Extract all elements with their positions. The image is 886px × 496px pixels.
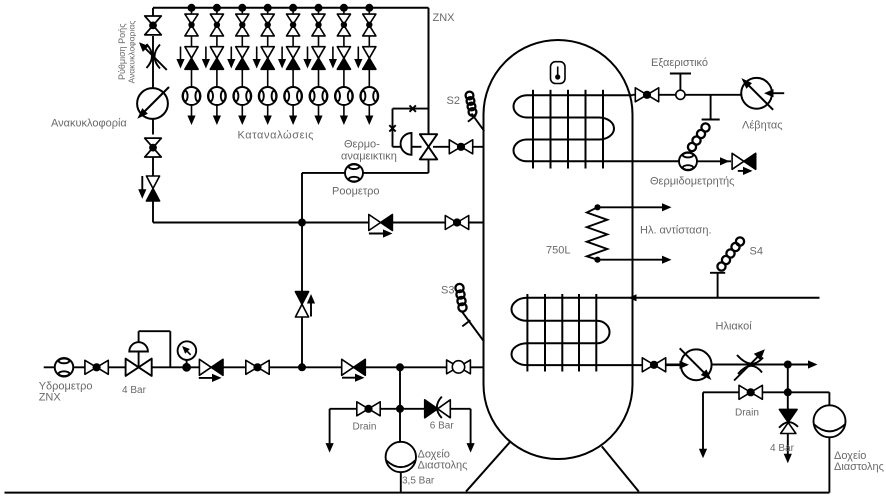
svg-text:Καταναλώσεις: Καταναλώσεις (238, 130, 315, 142)
svg-text:Ροομετρο: Ροομετρο (332, 186, 380, 198)
svg-text:ΖΝΧ: ΖΝΧ (39, 392, 62, 404)
svg-text:3,5 Bar: 3,5 Bar (402, 476, 435, 487)
svg-text:Διαστολης: Διαστολης (418, 460, 468, 472)
svg-text:4 Bar: 4 Bar (770, 443, 795, 454)
svg-text:Υδρομετρο: Υδρομετρο (39, 380, 93, 392)
svg-text:Λέβητας: Λέβητας (742, 120, 783, 132)
svg-text:Εξαεριστικό: Εξαεριστικό (651, 57, 708, 69)
svg-text:Θερμιδομετρητής: Θερμιδομετρητής (650, 176, 734, 188)
svg-text:Δοχείο: Δοχείο (418, 448, 450, 460)
svg-text:S3: S3 (441, 285, 454, 297)
svg-text:4 Bar: 4 Bar (122, 385, 147, 396)
svg-text:Θερμο-: Θερμο- (344, 139, 380, 151)
svg-text:Ανακυκλοφαριας: Ανακυκλοφαριας (127, 21, 137, 84)
svg-text:Ανακυκλοφορία: Ανακυκλοφορία (51, 118, 127, 130)
svg-text:Drain: Drain (735, 408, 759, 419)
svg-text:Drain: Drain (353, 421, 377, 432)
svg-text:S2: S2 (447, 95, 460, 107)
svg-text:ΖΝΧ: ΖΝΧ (433, 12, 456, 24)
svg-text:S4: S4 (750, 246, 763, 258)
svg-text:Ηλιακοί: Ηλιακοί (716, 321, 753, 333)
svg-text:Ρύθμιση Ροής: Ρύθμιση Ροής (117, 23, 127, 80)
svg-text:750L: 750L (546, 245, 570, 257)
svg-text:Διαστολης: Διαστολης (834, 461, 884, 473)
svg-text:αναμεικτικη: αναμεικτικη (341, 151, 397, 163)
svg-text:6 Bar: 6 Bar (430, 420, 455, 431)
svg-text:Ηλ. αντίσταση.: Ηλ. αντίσταση. (640, 225, 712, 237)
